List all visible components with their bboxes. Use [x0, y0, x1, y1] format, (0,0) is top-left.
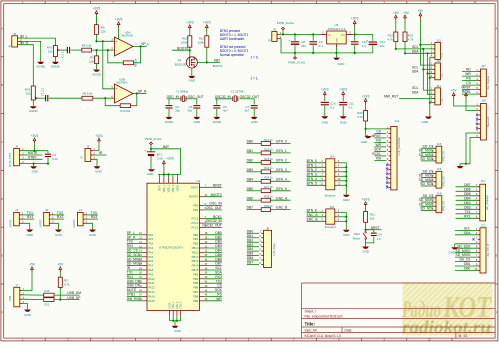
svg-text:Y2 32768: Y2 32768 [231, 89, 244, 93]
svg-text:STM32F103C8Tx: STM32F103C8Tx [159, 245, 184, 249]
svg-text:DB1: DB1 [247, 149, 254, 153]
svg-text:20p: 20p [187, 109, 192, 113]
svg-text:RCKL: RCKL [372, 152, 381, 156]
svg-text:3.3V: 3.3V [157, 156, 163, 160]
svg-text:GND: GND [147, 172, 155, 176]
svg-text:Ant_SPI_tft: Ant_SPI_tft [487, 243, 490, 256]
svg-text:SDA: SDA [412, 49, 420, 53]
svg-text:SDA: SDA [412, 90, 420, 94]
svg-text:BTN_3: BTN_3 [276, 168, 286, 172]
svg-text:1.0: 1.0 [377, 237, 381, 241]
svg-text:BOOT0: BOOT0 [177, 46, 188, 50]
svg-text:DB4: DB4 [464, 196, 471, 200]
svg-text:Sheet: /: Sheet: / [305, 309, 317, 313]
svg-text:KiCad E.D.A. kicad 5.1.0: KiCad E.D.A. kicad 5.1.0 [305, 334, 341, 338]
svg-text:GND: GND [188, 79, 196, 83]
svg-text:VDD_3: VDD_3 [173, 184, 175, 192]
svg-text:Reset: Reset [353, 236, 361, 240]
svg-text:R5 5.6k: R5 5.6k [83, 92, 93, 96]
svg-text:+5V: +5V [57, 263, 64, 267]
svg-text:SDA: SDA [215, 271, 223, 275]
svg-text:AMS1117-3.3: AMS1117-3.3 [327, 27, 345, 31]
svg-text:J1: J1 [15, 208, 18, 212]
svg-text:CS: CS [466, 81, 471, 85]
svg-text:PB11: PB11 [192, 250, 199, 254]
svg-text:UART bootloader,: UART bootloader, [220, 37, 245, 41]
svg-text:MCP602: MCP602 [117, 80, 128, 84]
svg-text:DB5: DB5 [247, 187, 254, 191]
svg-text:SPI2_SD: SPI2_SD [443, 176, 446, 186]
svg-text:C: C [496, 140, 498, 144]
svg-text:TX2: TX2 [127, 240, 133, 244]
svg-text:BTN_3: BTN_3 [307, 172, 317, 176]
svg-text:RX3: RX3 [91, 215, 98, 219]
svg-text:+5V: +5V [29, 263, 36, 267]
svg-text:WR: WR [216, 297, 222, 301]
svg-text:J11: J11 [481, 179, 486, 183]
svg-text:DB7: DB7 [464, 183, 471, 187]
svg-text:DB3: DB3 [215, 244, 222, 248]
svg-text:B: B [496, 83, 498, 87]
svg-text:Size: A4: Size: A4 [305, 329, 317, 333]
svg-text:DB3: DB3 [247, 168, 254, 172]
svg-text:PA10: PA10 [148, 277, 155, 281]
svg-text:MRST: MRST [372, 134, 381, 138]
svg-text:R16: R16 [45, 289, 50, 293]
svg-text:+3V3: +3V3 [186, 21, 194, 25]
svg-text:BTN_2: BTN_2 [276, 159, 286, 163]
svg-text:BOOT0: BOOT0 [211, 193, 222, 197]
svg-text:SPI2_SD: SPI2_SD [443, 151, 446, 161]
svg-text:TX1: TX1 [127, 271, 133, 275]
svg-text:R10 22k: R10 22k [120, 109, 131, 113]
svg-text:22k: 22k [370, 216, 375, 220]
svg-text:D: D [1, 197, 3, 201]
svg-text:PD1: PD1 [193, 208, 199, 212]
svg-text:SDA: SDA [464, 231, 472, 235]
svg-text:SD_SCK: SD_SCK [420, 157, 434, 161]
svg-text:DB6: DB6 [464, 187, 471, 191]
svg-text:NRST: NRST [213, 183, 222, 187]
svg-text:WR: WR [376, 143, 382, 147]
svg-text:PB8: PB8 [193, 294, 199, 298]
svg-text:J2: J2 [45, 208, 48, 212]
svg-text:PWR_FLAG: PWR_FLAG [145, 137, 163, 141]
svg-text:BTN_1: BTN_1 [307, 163, 317, 167]
svg-text:GND: GND [193, 120, 201, 124]
svg-text:SCL: SCL [412, 45, 419, 49]
svg-text:PA8: PA8 [148, 268, 153, 272]
svg-text:+3V3: +3V3 [351, 17, 359, 21]
svg-text:AGND: AGND [29, 109, 39, 113]
svg-text:VDD_1: VDD_1 [164, 184, 166, 192]
svg-text:RX2: RX2 [127, 244, 134, 248]
svg-text:DB4: DB4 [247, 247, 254, 251]
svg-text:MUTE: MUTE [127, 288, 137, 292]
svg-text:ENC_A: ENC_A [307, 213, 319, 217]
svg-text:PB5: PB5 [193, 281, 199, 285]
svg-text:GND: GND [422, 120, 430, 124]
svg-text:U2: U2 [197, 179, 201, 183]
svg-text:DB3: DB3 [247, 243, 254, 247]
svg-text:SD_CS: SD_CS [127, 249, 139, 253]
svg-text:UART3: UART3 [73, 219, 76, 228]
svg-text:BOOT1: BOOT1 [213, 64, 223, 68]
svg-text:DB2: DB2 [247, 238, 254, 242]
svg-text:DB4: DB4 [247, 177, 254, 181]
svg-text:OSC32_OUT: OSC32_OUT [202, 224, 222, 228]
svg-text:STB1: STB1 [127, 293, 135, 297]
svg-text:R22: R22 [45, 302, 50, 306]
svg-text:PA2: PA2 [148, 242, 153, 246]
svg-text:BTN_0: BTN_0 [307, 159, 317, 163]
svg-text:I2C: I2C [440, 98, 444, 102]
svg-text:PWR_FLAG: PWR_FLAG [277, 21, 295, 25]
svg-text:SPI2_SD: SPI2_SD [443, 201, 446, 211]
svg-text:+: + [116, 87, 118, 91]
svg-text:DB5: DB5 [464, 192, 471, 196]
svg-text:Date:: Date: [345, 329, 353, 333]
svg-text:Encoder: Encoder [325, 225, 336, 229]
svg-text:+3V3: +3V3 [321, 87, 329, 91]
svg-text:VSS_3: VSS_3 [181, 301, 183, 309]
svg-text:PB14: PB14 [192, 264, 199, 268]
svg-text:PB1: PB1 [193, 237, 199, 241]
svg-text:GND: GND [340, 121, 348, 125]
svg-text:DB0: DB0 [247, 140, 254, 144]
svg-text:D: D [496, 197, 498, 201]
svg-text:Ant_Display2: Ant_Display2 [486, 195, 489, 210]
svg-text:PB4: PB4 [193, 277, 199, 281]
svg-text:+3V5: +3V5 [93, 6, 101, 10]
svg-text:BTN_0: BTN_0 [276, 140, 286, 144]
svg-text:E: E [1, 254, 3, 258]
svg-text:LCD_TouchPad: LCD_TouchPad [397, 137, 401, 156]
svg-text:BCK1: BCK1 [213, 215, 222, 219]
svg-text:SCL: SCL [215, 266, 222, 270]
svg-text:BTN_4: BTN_4 [276, 177, 286, 181]
svg-text:VSSA: VSSA [169, 302, 172, 309]
svg-text:NRST: NRST [371, 226, 380, 230]
svg-text:J24: J24 [329, 205, 334, 209]
svg-text:SD_SCK: SD_SCK [420, 182, 434, 186]
svg-text:SD_MISO: SD_MISO [456, 249, 471, 253]
svg-text:A: A [496, 26, 498, 30]
svg-text:Buttons: Buttons [325, 194, 336, 198]
svg-text:DB7: DB7 [247, 206, 254, 210]
svg-text:J21: J21 [436, 84, 441, 88]
svg-text:USB_DM: USB_DM [67, 291, 81, 295]
svg-text:Id: 1/1: Id: 1/1 [459, 334, 468, 338]
svg-text:+5V: +5V [418, 9, 425, 13]
svg-text:BOOT0: BOOT0 [189, 195, 199, 199]
svg-text:STBY: STBY [28, 155, 37, 159]
svg-text:SD_SCK: SD_SCK [420, 207, 434, 211]
svg-text:CS: CS [217, 284, 222, 288]
svg-text:AGND: AGND [36, 65, 46, 69]
svg-text:USB: USB [8, 296, 12, 302]
svg-text:+5V: +5V [451, 89, 458, 93]
svg-text:DB1: DB1 [247, 234, 254, 238]
svg-text:GND: GND [343, 198, 351, 202]
svg-text:GND: GND [32, 170, 40, 174]
svg-text:0.1: 0.1 [319, 44, 323, 48]
svg-text:PC13: PC13 [191, 217, 198, 221]
svg-text:4p7: 4p7 [223, 109, 228, 113]
svg-text:BTN_2: BTN_2 [307, 168, 317, 172]
svg-text:AGND: AGND [212, 120, 222, 124]
svg-text:J18: J18 [437, 192, 442, 196]
svg-text:BTN_1: BTN_1 [276, 149, 286, 153]
svg-text:J14: J14 [329, 155, 334, 159]
svg-text:BTN_5: BTN_5 [307, 181, 317, 185]
svg-text:J15: J15 [437, 167, 442, 171]
svg-text:TX1: TX1 [465, 210, 471, 214]
svg-text:ENC_B: ENC_B [276, 206, 288, 210]
svg-text:RD: RD [466, 68, 471, 72]
svg-text:GND: GND [448, 251, 456, 255]
svg-text:PC14: PC14 [191, 221, 198, 225]
svg-text:VO: VO [341, 33, 345, 37]
svg-text:MW_RST: MW_RST [384, 95, 398, 99]
svg-text:A: A [1, 26, 3, 30]
svg-text:GND: GND [26, 233, 34, 237]
svg-text:UART2: UART2 [39, 219, 42, 228]
svg-text:DB5: DB5 [247, 252, 254, 256]
svg-text:1 = 1.: 1 = 1. [251, 77, 259, 81]
svg-text:22k: 22k [26, 91, 31, 95]
svg-text:20p: 20p [175, 109, 180, 113]
svg-text:PA9: PA9 [148, 272, 153, 276]
svg-text:100k: 100k [198, 40, 205, 44]
svg-text:BTN_4: BTN_4 [307, 177, 317, 181]
svg-text:OSC_OUT: OSC_OUT [188, 95, 204, 99]
svg-text:IR: IR [81, 156, 84, 159]
svg-text:GND: GND [55, 233, 63, 237]
svg-text:R4 5.6k: R4 5.6k [82, 44, 92, 48]
svg-text:PB12: PB12 [192, 255, 199, 259]
svg-text:Bluetooth: Bluetooth [487, 116, 490, 127]
svg-text:OSC_IN: OSC_IN [167, 95, 180, 99]
svg-text:J19: J19 [481, 99, 486, 103]
svg-text:NRST: NRST [191, 185, 199, 189]
svg-text:R9 22k: R9 22k [133, 58, 137, 67]
svg-text:OSC32_IN: OSC32_IN [215, 95, 232, 99]
svg-text:DB2: DB2 [464, 205, 471, 209]
svg-text:GND: GND [174, 329, 182, 333]
svg-text:SCL: SCL [464, 227, 471, 231]
svg-text:PB2: PB2 [193, 242, 199, 246]
svg-text:OSC32_OUT: OSC32_OUT [240, 95, 260, 99]
svg-text:PB13: PB13 [192, 259, 199, 263]
svg-text:DB7: DB7 [215, 262, 222, 266]
svg-text:SD_MOSI: SD_MOSI [456, 253, 471, 257]
svg-text:J22: J22 [481, 223, 486, 227]
svg-text:VI: VI [328, 33, 331, 37]
svg-text:4.7k: 4.7k [408, 38, 414, 42]
svg-text:SB2: SB2 [214, 58, 220, 62]
svg-text:GND: GND [251, 120, 259, 124]
svg-text:PA14: PA14 [148, 294, 155, 298]
svg-text:22k: 22k [48, 49, 53, 53]
svg-text:PWR_FLAG: PWR_FLAG [288, 60, 306, 64]
svg-text:PA3: PA3 [148, 246, 153, 250]
svg-text:+5V: +5V [393, 11, 400, 15]
svg-text:GND: GND [361, 140, 369, 144]
svg-text:AGND: AGND [92, 72, 102, 76]
svg-text:PA1: PA1 [148, 237, 153, 241]
svg-text:DB6: DB6 [247, 196, 254, 200]
svg-text:PC15: PC15 [191, 226, 198, 230]
svg-text:−: − [116, 49, 118, 53]
svg-text:22k: 22k [101, 30, 106, 34]
svg-text:J12: J12 [395, 119, 400, 123]
svg-text:PA4: PA4 [148, 250, 153, 254]
svg-text:CS: CS [376, 130, 381, 134]
svg-text:J8: J8 [266, 226, 269, 230]
svg-text:0.1: 0.1 [349, 105, 353, 109]
svg-text:+3V3: +3V3 [362, 197, 370, 201]
svg-text:GND: GND [321, 121, 329, 125]
svg-text:UART1: UART1 [9, 219, 12, 228]
svg-text:GND: GND [95, 170, 103, 174]
svg-text:J6: J6 [86, 145, 89, 149]
svg-text:+3V3: +3V3 [339, 87, 347, 91]
svg-text:+3V3: +3V3 [462, 89, 470, 93]
svg-text:B: B [1, 83, 3, 87]
svg-text:PB9: PB9 [193, 299, 199, 303]
svg-text:DB3: DB3 [464, 201, 471, 205]
svg-text:PA11: PA11 [148, 281, 155, 285]
svg-text:BTN_5: BTN_5 [276, 187, 286, 191]
svg-text:+: + [144, 148, 146, 152]
svg-text:I2C: I2C [440, 52, 444, 56]
svg-text:DB0: DB0 [464, 267, 471, 271]
svg-text:DB6: DB6 [247, 256, 254, 260]
svg-text:GND: GND [338, 62, 346, 66]
svg-text:J5: J5 [7, 45, 11, 48]
svg-text:PA6: PA6 [148, 259, 153, 263]
svg-text:J7: J7 [15, 283, 18, 287]
svg-text:Ant_Display: Ant_Display [487, 75, 490, 89]
svg-text:OSC32_IN: OSC32_IN [206, 219, 223, 223]
svg-text:PB10: PB10 [192, 246, 199, 250]
svg-text:MCP602: MCP602 [122, 34, 133, 38]
svg-text:ENC_B: ENC_B [307, 217, 319, 221]
svg-text:+5V: +5V [403, 11, 410, 15]
svg-text:+3V5: +3V5 [115, 18, 123, 22]
svg-text:GND: GND [89, 233, 97, 237]
svg-text:+3V3: +3V3 [95, 134, 103, 138]
svg-text:22k: 22k [89, 60, 94, 64]
svg-text:DB4: DB4 [215, 249, 222, 253]
svg-text:PB0: PB0 [193, 233, 199, 237]
svg-text:LCD_Data: LCD_Data [272, 243, 276, 256]
svg-text:PD0: PD0 [193, 204, 199, 208]
svg-text:RX1: RX1 [464, 214, 471, 218]
svg-text:AGND: AGND [165, 120, 175, 124]
svg-text:DB2: DB2 [247, 159, 254, 163]
svg-text:−: − [116, 97, 118, 101]
svg-text:MUTE_STBY: MUTE_STBY [9, 152, 12, 167]
svg-text:+3V3: +3V3 [166, 156, 174, 160]
svg-text:VDD_2: VDD_2 [168, 184, 170, 192]
svg-text:J5: J5 [13, 32, 17, 36]
svg-text:22u: 22u [301, 44, 306, 48]
svg-text:DB7: DB7 [247, 261, 254, 265]
svg-text:SW1: SW1 [354, 232, 361, 236]
svg-text:GND: GND [343, 233, 351, 237]
svg-text:VBAT: VBAT [158, 184, 161, 190]
svg-text:4.7k: 4.7k [64, 283, 70, 287]
svg-text:PA7: PA7 [148, 264, 153, 268]
svg-text:RX2: RX2 [57, 215, 64, 219]
svg-text:100k: 100k [181, 40, 188, 44]
svg-text:RX3: RX3 [215, 275, 222, 279]
svg-text:RD: RD [376, 157, 381, 161]
svg-text:R19 1k: R19 1k [264, 166, 273, 170]
svg-text:+: + [116, 40, 118, 44]
svg-text:Normal operation: Normal operation [220, 53, 245, 57]
svg-text:PA13: PA13 [148, 290, 155, 294]
svg-text:SD_SCK: SD_SCK [457, 244, 471, 248]
svg-text:Q1: Q1 [177, 58, 181, 62]
svg-text:VSS_2: VSS_2 [177, 301, 179, 309]
svg-text:DB6: DB6 [215, 257, 222, 261]
svg-text:File: ampcontrol-f103.sch: File: ampcontrol-f103.sch [305, 314, 343, 318]
svg-text:C2 2.2: C2 2.2 [61, 49, 65, 58]
svg-text:E: E [496, 254, 498, 258]
svg-text:SP_R: SP_R [138, 89, 147, 93]
svg-text:SCK: SCK [374, 148, 382, 152]
svg-text:BTN_E: BTN_E [307, 208, 318, 212]
svg-text:J4: J4 [15, 145, 18, 149]
svg-text:PB3: PB3 [193, 272, 199, 276]
svg-text:C1 2.2: C1 2.2 [41, 87, 45, 96]
svg-text:C: C [1, 140, 3, 144]
svg-text:AGND: AGND [51, 65, 61, 69]
svg-text:RS: RS [466, 77, 471, 81]
svg-text:+3V3: +3V3 [362, 94, 370, 98]
svg-text:BSS138: BSS138 [175, 63, 186, 67]
svg-text:R29 1k: R29 1k [264, 204, 273, 208]
svg-text:DB1: DB1 [215, 235, 222, 239]
svg-text:SP_R: SP_R [127, 235, 136, 239]
svg-text:R16 1k: R16 1k [264, 157, 273, 161]
svg-text:R24 1k: R24 1k [264, 176, 273, 180]
svg-text:PB6: PB6 [193, 286, 199, 290]
svg-text:+3V3: +3V3 [203, 21, 211, 25]
svg-text:DB2: DB2 [215, 240, 222, 244]
svg-text:J16: J16 [437, 142, 442, 146]
svg-text:RX1: RX1 [27, 215, 34, 219]
svg-text:+: + [289, 39, 291, 43]
svg-text:DB0: DB0 [215, 231, 222, 235]
svg-text:SP_L: SP_L [127, 231, 135, 235]
svg-text:0.1: 0.1 [330, 105, 334, 109]
svg-text:OSC_IN: OSC_IN [210, 202, 223, 206]
svg-text:J3: J3 [79, 208, 82, 212]
svg-text:RX1: RX1 [127, 275, 134, 279]
svg-text:GND: GND [24, 313, 32, 317]
svg-text:VDDA: VDDA [176, 185, 179, 192]
svg-text:BAT: BAT [163, 145, 169, 149]
svg-text:+3V3: +3V3 [31, 134, 39, 138]
svg-text:4.7k: 4.7k [357, 115, 363, 119]
svg-text:GND: GND [337, 37, 339, 42]
svg-text:WR: WR [465, 72, 471, 76]
svg-text:0.33: 0.33 [52, 157, 58, 161]
